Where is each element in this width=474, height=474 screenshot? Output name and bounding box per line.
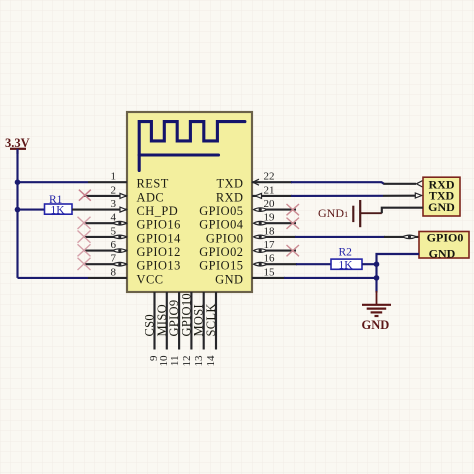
bidir glyph pin16 bbox=[254, 262, 268, 266]
svg-text:GPIO12: GPIO12 bbox=[137, 245, 181, 259]
3.3V power port bbox=[5, 136, 30, 154]
wire pin1 bbox=[18, 181, 89, 183]
wire 21 to TXD bbox=[291, 195, 383, 197]
svg-text:GPIO0: GPIO0 bbox=[206, 231, 244, 245]
pin 18 GPIO0 wire to port bbox=[266, 236, 296, 238]
svg-text:GND: GND bbox=[362, 318, 390, 332]
svg-text:21: 21 bbox=[264, 184, 275, 196]
junction dot pin15/gnd rail bbox=[374, 275, 380, 281]
junction dot rail/pin1 bbox=[15, 179, 21, 185]
svg-text:20: 20 bbox=[264, 198, 276, 210]
pin 2 ADC bbox=[84, 195, 127, 197]
pin 17 GPIO02 bbox=[266, 250, 296, 252]
svg-text:VCC: VCC bbox=[137, 272, 164, 286]
pin 7 GPIO13 bbox=[84, 263, 127, 265]
wire pin8 bbox=[18, 277, 89, 279]
pin 1 REST bbox=[88, 181, 127, 183]
svg-text:REST: REST bbox=[137, 177, 169, 191]
left pin numbers bbox=[111, 171, 117, 279]
pin 4 GPIO16 bbox=[84, 222, 127, 224]
pin 3 CH_PD bbox=[72, 209, 127, 211]
wire GND1 to port bbox=[382, 208, 423, 214]
no-ERC X pin7 bbox=[78, 258, 91, 270]
svg-text:19: 19 bbox=[264, 212, 276, 224]
wire 22 to RXD bbox=[291, 182, 384, 184]
junction dot rail/R1 bbox=[15, 207, 21, 213]
svg-text:18: 18 bbox=[264, 225, 276, 237]
pin 5 GPIO14 bbox=[84, 236, 127, 238]
bidir glyph pin4 bbox=[113, 221, 127, 225]
out arrow at RXD port bbox=[416, 181, 422, 187]
bidir glyph pin17 bbox=[254, 249, 268, 253]
pin 21 RXD bbox=[252, 195, 292, 197]
in arrow pin21 bbox=[255, 193, 261, 198]
3.3V rail wire bbox=[16, 149, 18, 278]
svg-text:7: 7 bbox=[111, 253, 117, 265]
no-ERC X pin17 bbox=[287, 245, 300, 256]
svg-text:GPIO05: GPIO05 bbox=[199, 204, 243, 218]
input arrow pin3 bbox=[120, 207, 126, 212]
svg-text:5: 5 bbox=[111, 225, 117, 237]
bottom pins 9-14 bbox=[155, 292, 217, 350]
svg-text:CH_PD: CH_PD bbox=[137, 204, 179, 218]
svg-text:8: 8 bbox=[111, 266, 117, 278]
wire 15 to gnd rail bbox=[284, 277, 377, 279]
no-ERC X pin19 bbox=[287, 218, 300, 229]
svg-text:14: 14 bbox=[205, 355, 217, 367]
svg-text:GPIO04: GPIO04 bbox=[199, 218, 243, 232]
bidir glyph pin7 bbox=[113, 262, 127, 266]
svg-text:6: 6 bbox=[111, 239, 117, 251]
svg-text:15: 15 bbox=[264, 266, 276, 278]
pin 16 GPIO15 wire to R2 bbox=[266, 263, 297, 265]
wire 22 black segment bbox=[384, 183, 417, 185]
antenna meander graphic bbox=[139, 122, 245, 171]
no-ERC X pin20 bbox=[287, 204, 300, 215]
out arrow pin22 bbox=[253, 179, 259, 185]
svg-text:ADC: ADC bbox=[137, 190, 165, 204]
junction dot R2/gnd rail bbox=[374, 261, 380, 267]
svg-text:RXD: RXD bbox=[216, 190, 244, 204]
connector GND1 bbox=[318, 200, 382, 227]
IC U1 body (ESP-12 module) bbox=[127, 112, 252, 292]
svg-text:16: 16 bbox=[264, 253, 276, 265]
pin 22 TXD bbox=[252, 181, 292, 183]
svg-text:GND: GND bbox=[428, 200, 455, 214]
bidir glyph at GPIO0 port bbox=[403, 235, 417, 239]
ground symbol GND bbox=[362, 291, 391, 316]
resistor R1 bbox=[45, 194, 73, 216]
port RXD/TXD/GND connector box bbox=[423, 177, 460, 216]
svg-text:GPIO15: GPIO15 bbox=[199, 259, 243, 273]
bidir glyph pin6 bbox=[113, 249, 127, 253]
svg-text:SCLK: SCLK bbox=[204, 303, 218, 336]
svg-text:GPIO16: GPIO16 bbox=[137, 218, 181, 232]
wire R1 left bbox=[18, 209, 45, 211]
pin 18 black segment bbox=[384, 236, 419, 238]
wire R2 to gnd rail bbox=[362, 263, 377, 265]
bidir glyph pin5 bbox=[113, 235, 127, 239]
in arrow at TXD port bbox=[415, 193, 422, 198]
svg-text:GPIO13: GPIO13 bbox=[137, 259, 181, 273]
bidir glyph pin20 bbox=[254, 208, 268, 212]
input arrow pin2 bbox=[120, 193, 126, 198]
pin 19 GPIO04 bbox=[266, 222, 296, 224]
wire GPIO0 GND row to gnd rail bbox=[377, 254, 420, 293]
no-ERC X pin6 bbox=[78, 244, 91, 256]
svg-text:GND1: GND1 bbox=[318, 206, 348, 220]
bidir glyph pin18 bbox=[254, 235, 268, 239]
bidir glyph pin19 bbox=[254, 221, 268, 225]
wire 21 black segment bbox=[383, 195, 415, 197]
svg-text:TXD: TXD bbox=[217, 177, 244, 191]
svg-text:1K: 1K bbox=[339, 259, 354, 271]
svg-text:12: 12 bbox=[181, 356, 193, 367]
svg-text:17: 17 bbox=[264, 239, 276, 251]
svg-text:GND: GND bbox=[215, 272, 243, 286]
svg-text:1K: 1K bbox=[51, 204, 66, 216]
bottom pin names (rotated) bbox=[143, 293, 219, 336]
svg-text:GPIO0: GPIO0 bbox=[427, 230, 464, 244]
port GPIO0/GND connector box bbox=[419, 230, 469, 260]
IC right pin names bbox=[199, 177, 243, 287]
pin 20 GPIO05 bbox=[266, 209, 296, 211]
svg-text:GPIO14: GPIO14 bbox=[137, 231, 181, 245]
svg-text:4: 4 bbox=[111, 212, 117, 224]
svg-text:22: 22 bbox=[264, 171, 275, 183]
svg-text:11: 11 bbox=[169, 356, 181, 367]
svg-text:1: 1 bbox=[111, 171, 117, 183]
svg-text:GPIO02: GPIO02 bbox=[199, 245, 243, 259]
pin 6 GPIO12 bbox=[84, 250, 127, 252]
IC left pin names bbox=[137, 177, 181, 287]
svg-text:R2: R2 bbox=[339, 247, 353, 259]
resistor R2 bbox=[331, 247, 362, 272]
svg-text:13: 13 bbox=[193, 355, 205, 367]
no-ERC X pin4 bbox=[78, 217, 91, 229]
right pin numbers bbox=[264, 171, 276, 279]
bottom pin numbers (rotated) bbox=[148, 355, 217, 367]
svg-text:2: 2 bbox=[111, 184, 117, 196]
svg-text:3: 3 bbox=[111, 198, 117, 210]
no-ERC X pin2 bbox=[79, 190, 91, 201]
svg-text:GND: GND bbox=[429, 247, 456, 261]
pin 8 VCC bbox=[88, 277, 127, 279]
pin 15 GND bbox=[252, 277, 285, 279]
no-ERC X pin5 bbox=[78, 231, 91, 243]
